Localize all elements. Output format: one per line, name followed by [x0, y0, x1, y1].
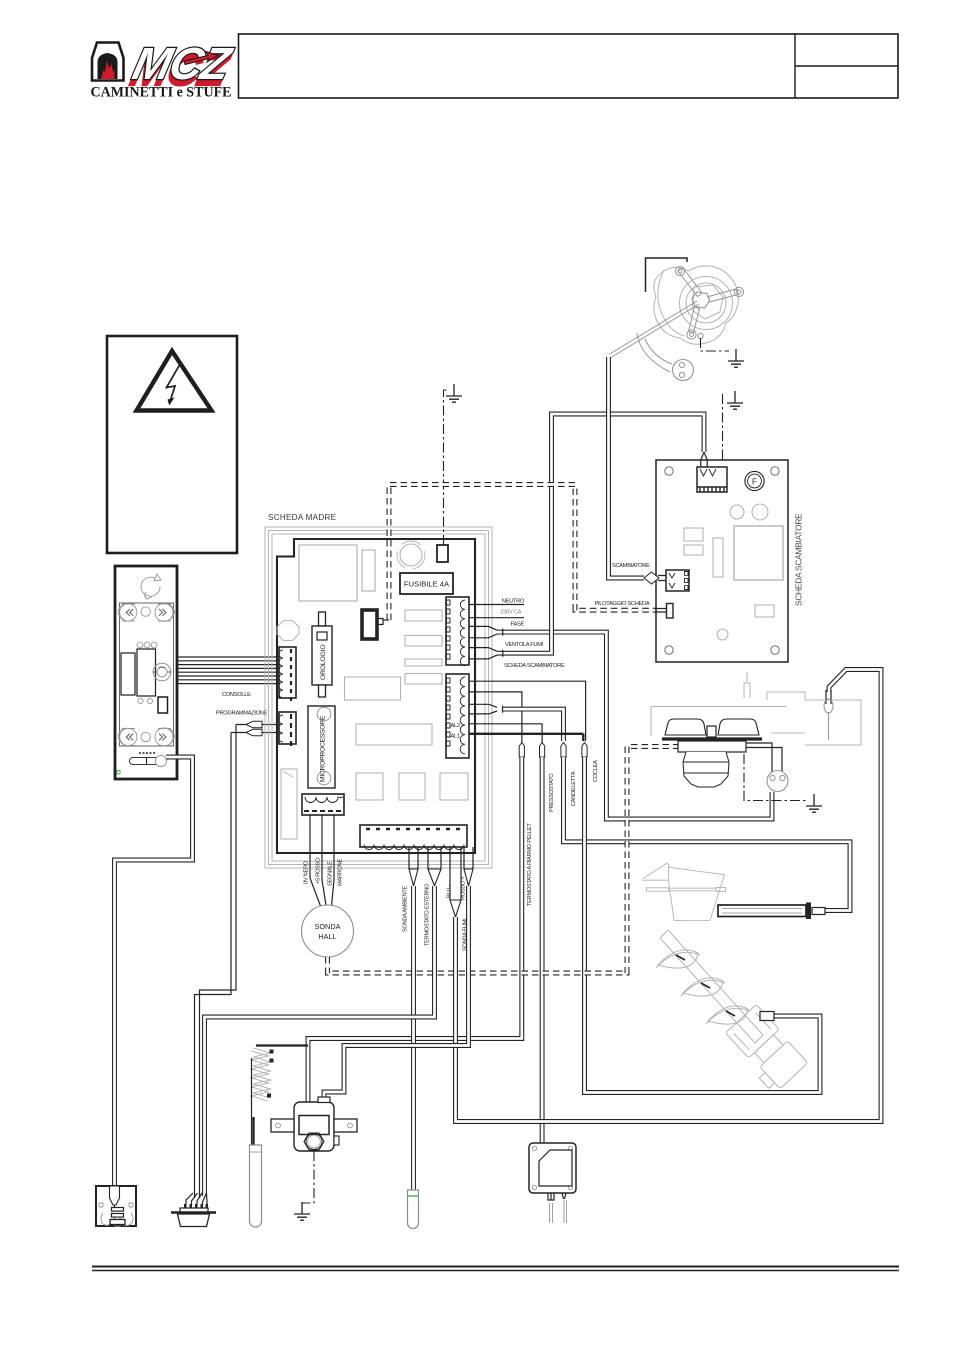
safety thermostat box	[529, 1143, 576, 1193]
spring contact dots	[267, 1050, 274, 1098]
svg-text:AL2: AL2	[451, 723, 460, 729]
wire AL1 thick to coclea inner	[469, 734, 583, 741]
fuse holder block	[437, 545, 448, 562]
fork SCHEDA SCAMBIATORE	[469, 648, 503, 659]
wire pair to serial connector	[428, 847, 441, 869]
room fan round connector	[767, 771, 788, 792]
logo fireplace icon	[92, 43, 124, 81]
plug PRESSOSTATO line	[540, 743, 545, 758]
svg-text:VENTOLA FUMI: VENTOLA FUMI	[505, 642, 544, 648]
svg-text:COCLEA: COCLEA	[593, 760, 599, 782]
wire pair SONDA FUMI probe	[409, 847, 418, 869]
exchanger left connector SCAMBIATORE	[666, 570, 689, 591]
svg-text:230V CA: 230V CA	[500, 610, 521, 616]
microprocessor circle bottom	[317, 771, 331, 785]
smoke fan cable (grey)	[609, 301, 699, 358]
console panel frame	[115, 566, 177, 779]
svg-text:SONDA AMBIENTE: SONDA AMBIENTE	[403, 885, 409, 932]
OROLOGIO top pin	[319, 612, 326, 626]
svg-text:+5 ROSSO: +5 ROSSO	[316, 857, 322, 884]
wire pair VENTOLA FUMI to room fan	[497, 632, 772, 819]
exchanger board outline	[656, 460, 788, 662]
console display centre block	[137, 649, 156, 696]
pressure switch top tab	[318, 1097, 330, 1103]
grey bottom block B	[399, 773, 425, 800]
console arrows top	[126, 609, 166, 616]
svg-text:TERMOSTATO ESTERNO: TERMOSTATO ESTERNO	[425, 883, 431, 946]
pressure switch nut	[304, 1133, 324, 1150]
wire pair smoke fan cable to exchanger connector	[609, 357, 645, 578]
wire pair pressure switch return	[464, 847, 473, 869]
exchanger top connector	[697, 467, 727, 492]
grey centre block B	[356, 724, 432, 745]
serial connector pins	[184, 1204, 208, 1209]
wire NEUTRO stub	[469, 604, 524, 606]
svg-text:PRESSOSTATO: PRESSOSTATO	[549, 773, 555, 812]
safety thermostat element	[539, 1150, 572, 1186]
exchanger grey circles	[730, 505, 744, 519]
smoke fan centre hub	[692, 292, 710, 308]
warning box frame	[107, 336, 237, 553]
wire pair CANDELETTA to igniter	[564, 757, 851, 911]
wire FASE stub	[469, 617, 524, 619]
svg-text:FUSIBILE 4A: FUSIBILE 4A	[404, 580, 450, 589]
svg-text:SCHEDA SCAMBIATORE: SCHEDA SCAMBIATORE	[504, 663, 565, 669]
ground symbol room fan	[806, 794, 822, 812]
smoke fan scroll housing (grey)	[654, 266, 739, 344]
programming plug 1	[246, 721, 262, 728]
wire console to wall plate	[115, 757, 193, 1186]
svg-text:HALL: HALL	[318, 932, 336, 941]
fork CANDELETTA	[469, 704, 503, 714]
main board PCB outline (grey)	[265, 527, 492, 868]
safety thermostat terminals	[548, 1193, 566, 1200]
smoke fan mounting bracket	[646, 258, 688, 292]
main board black outline	[277, 539, 475, 853]
smoke fan spokes	[678, 268, 738, 333]
svg-text:SCHEDA MADRE: SCHEDA MADRE	[268, 513, 337, 522]
grey bottom block A	[356, 773, 383, 800]
dash-dot ground room fan	[744, 754, 806, 801]
svg-text:SONDA: SONDA	[315, 922, 341, 931]
svg-text:NEUTRO: NEUTRO	[502, 599, 525, 605]
component grey circle top	[400, 544, 422, 566]
exchanger grey blocks	[684, 528, 703, 541]
flue probe body	[408, 1190, 419, 1229]
ground dash-dot from fuse	[444, 390, 450, 545]
svg-text:FASE: FASE	[511, 622, 525, 628]
probe lead	[251, 1058, 253, 1145]
auger shaft	[660, 930, 763, 1043]
pressure switch bracket right ear	[334, 1119, 357, 1132]
plug COCLEA line	[582, 743, 587, 758]
spring feed wire	[256, 1044, 308, 1046]
svg-text:CONSOLLE: CONSOLLE	[222, 692, 251, 698]
plug CANDELETTA line	[561, 743, 566, 758]
wall plate decorations	[101, 1213, 133, 1227]
room probe body	[250, 1145, 262, 1227]
grey tall rect bottom-left	[281, 769, 297, 839]
console slider ticks	[139, 752, 155, 754]
console knob	[153, 663, 171, 681]
dash-dot ground exchanger	[722, 394, 724, 467]
console green mark	[117, 771, 120, 775]
OROLOGIO component	[312, 626, 332, 685]
microprocessor circle top	[317, 707, 331, 721]
dashed wire SONDA HALL to room fan	[328, 747, 746, 974]
pilotaggio tab on relay	[383, 619, 389, 621]
logo MCZ lettering	[126, 39, 238, 96]
svg-text:0V NERO: 0V NERO	[304, 860, 310, 884]
connector CONSOLLE on board	[279, 647, 296, 701]
grey rect row A	[405, 610, 442, 621]
svg-text:MCZ: MCZ	[128, 39, 237, 89]
connector PROGRAMMAZIONE on board	[279, 712, 297, 746]
dash-dot ground pressure switch	[302, 1151, 314, 1203]
console button back bottom	[118, 728, 175, 746]
OROLOGIO bottom pin	[319, 685, 326, 697]
component grey circle left	[277, 621, 299, 641]
pressure switch bracket left ear	[271, 1119, 294, 1132]
wire pair CANDELETTA feed	[502, 709, 564, 741]
wire pair to safety thermostat	[540, 757, 545, 1145]
smoke fan round connector	[673, 360, 694, 381]
grey rect row C	[405, 659, 442, 666]
svg-text:CANDELETTA: CANDELETTA	[571, 771, 577, 806]
connector right upper (mains/fans)	[446, 597, 469, 666]
hall sensor wires	[310, 815, 334, 906]
exchanger top connector fork	[701, 452, 707, 469]
header right cell divider	[795, 34, 898, 98]
pressure switch body	[294, 1102, 334, 1151]
room fan hub	[707, 726, 716, 737]
footer rule	[92, 1266, 899, 1268]
wire AL2 to safety thermostat line	[469, 724, 542, 744]
wire pair SCHEDA SCAMBIATORE feed	[497, 414, 704, 653]
programming wire 2	[195, 733, 280, 1199]
igniter element	[718, 905, 806, 917]
console slider	[130, 755, 167, 766]
pressure switch bracket centre	[299, 1116, 329, 1135]
smoke fan connector wires (grey)	[637, 333, 672, 372]
warning triangle	[137, 351, 212, 411]
probe spring (grey coil)	[252, 1048, 271, 1101]
console arrows bottom	[126, 734, 166, 741]
svg-text:OROLOGIO: OROLOGIO	[320, 645, 327, 680]
svg-text:SCAMBIATORE: SCAMBIATORE	[612, 563, 650, 569]
FUSIBILE 4A label box	[400, 573, 453, 594]
wall plate plug	[110, 1186, 120, 1205]
igniter end cap	[806, 903, 811, 920]
fork SCAMBIATORE kite	[644, 572, 659, 584]
relay black block	[362, 610, 377, 639]
svg-text:MARRONE: MARRONE	[338, 859, 344, 886]
plug TERMOSTATO RIARMO	[519, 743, 524, 758]
room fan blade right	[718, 719, 759, 735]
console recycle icon	[141, 574, 161, 599]
igniter terminal connector	[826, 690, 831, 704]
component big grey block	[299, 545, 357, 601]
console inner bezel	[120, 603, 174, 746]
exchanger mounting holes	[665, 467, 779, 654]
ground symbol pressure switch	[294, 1202, 310, 1220]
connector right lower (outputs)	[446, 674, 469, 758]
ground symbol exchanger	[727, 391, 743, 409]
wall plate	[96, 1186, 136, 1226]
programming wire 1	[200, 725, 280, 1199]
hopper funnel outline	[642, 863, 726, 921]
grey centre block A	[345, 677, 401, 700]
svg-text:SCHEDA SCAMBIATORE: SCHEDA SCAMBIATORE	[794, 513, 804, 606]
auger flight 3	[708, 1006, 748, 1024]
auger flight 2	[683, 978, 723, 996]
svg-text:F: F	[752, 478, 757, 487]
SONDA HALL sensor	[302, 905, 354, 957]
ground symbol smoke fan	[728, 349, 744, 367]
connector bottom strip	[360, 825, 467, 850]
dash-dot ground smoke fan	[701, 338, 730, 351]
console small leds	[138, 698, 153, 703]
serial connector shell	[178, 1214, 210, 1227]
smoke fan spoke hubs	[675, 266, 743, 339]
ground symbol top	[446, 384, 462, 402]
serial connector housing	[180, 1208, 208, 1213]
room fan housing (grey)	[651, 672, 861, 745]
grey bottom block C	[440, 773, 468, 800]
grey rect row D	[405, 674, 442, 685]
svg-text:PROGRAMMAZIONE: PROGRAMMAZIONE	[216, 711, 268, 717]
component small grey block	[362, 550, 375, 591]
svg-text:BLU -: BLU -	[447, 885, 453, 898]
svg-text:SEGNALE: SEGNALE	[328, 861, 334, 886]
exchanger fuse F	[745, 471, 764, 490]
wire pair riarmo pellet to pressure switch	[308, 757, 522, 1102]
room fan motor bell	[683, 752, 729, 787]
svg-text:CAMINETTI e STUFE: CAMINETTI e STUFE	[91, 85, 232, 101]
room fan plate	[662, 737, 762, 740]
dashed wire PILOTAGGIO SCHEDA	[389, 485, 656, 621]
programming plug 2	[246, 729, 262, 736]
MICROPROCESSORE component	[308, 706, 335, 788]
wire pin1 to coclea outer	[469, 681, 586, 741]
wire pair COCLEA to auger motor	[585, 757, 821, 1093]
connector hall sensor	[302, 794, 344, 815]
room fan blade left	[665, 719, 706, 735]
auger flight 1	[658, 950, 698, 968]
console display left block	[121, 653, 135, 695]
lightning bolt	[167, 365, 180, 403]
wire pair SONDA FUMI (blu/rosso)	[450, 847, 461, 900]
serial connector flange	[171, 1211, 216, 1214]
header title box	[239, 34, 899, 98]
room fan motor cradle	[678, 741, 746, 752]
console button back top-left	[118, 603, 175, 621]
fork VENTOLA FUMI	[469, 626, 503, 637]
wire pin2 to riarmo pellet line	[469, 692, 522, 744]
CONSOLLE ribbon wires	[177, 657, 279, 684]
grey rect row B	[405, 636, 442, 647]
igniter terminal	[812, 908, 825, 915]
pilotaggio plug on exchanger board	[655, 609, 667, 613]
console small block	[158, 697, 168, 713]
room fan wires to connector	[746, 743, 782, 772]
console display leds	[137, 642, 157, 648]
auger gearmotor body	[721, 1004, 809, 1094]
auger motor faston	[760, 1012, 774, 1021]
serial connector wires fan-out	[186, 1193, 207, 1205]
svg-text:ROSSO +: ROSSO +	[461, 876, 467, 900]
svg-text:PILOTAGGIO SCHEDA: PILOTAGGIO SCHEDA	[595, 601, 650, 607]
svg-text:TERMOSTATO A RIARMO PELLET: TERMOSTATO A RIARMO PELLET	[527, 823, 533, 906]
pressure switch side tab	[334, 1136, 339, 1145]
svg-text:AL1: AL1	[451, 734, 460, 740]
